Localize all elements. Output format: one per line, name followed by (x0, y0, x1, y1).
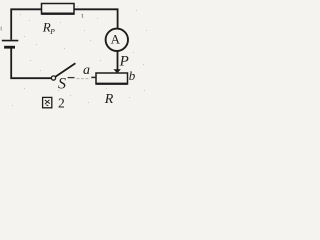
switch S (51, 63, 75, 80)
label P (119, 54, 129, 70)
wire faded under node a (77, 78, 91, 80)
svg-text:P: P (119, 54, 129, 70)
label R (104, 92, 114, 107)
wire battery bottom to switch (11, 48, 51, 78)
wire ammeter to slider arrow (117, 51, 119, 70)
label S (58, 76, 66, 93)
wire switch contact dash (68, 77, 75, 79)
svg-text:P: P (49, 27, 55, 36)
scan speckle t (82, 14, 84, 20)
figure caption glyph tu (43, 97, 52, 107)
svg-text:b: b (129, 68, 136, 83)
scan noise dots (12, 6, 147, 106)
resistor R1 (42, 4, 75, 15)
svg-text:t: t (82, 14, 84, 20)
rheostat R (96, 73, 128, 84)
label b (129, 68, 136, 83)
slider arrow (113, 69, 121, 73)
scan speckle left edge (0, 27, 3, 31)
wire node a to rheostat (91, 76, 96, 78)
node a (83, 63, 90, 78)
svg-text:a: a (83, 63, 90, 78)
wire resistor to ammeter (74, 9, 118, 29)
svg-text:S: S (58, 76, 66, 93)
svg-text:A: A (111, 31, 121, 46)
figure caption number 2 (58, 95, 65, 110)
ammeter U1 (106, 29, 128, 51)
label R1 (42, 20, 56, 37)
svg-text:2: 2 (58, 95, 65, 110)
battery B1 (2, 41, 19, 48)
svg-text:R: R (104, 92, 114, 107)
wire battery top to resistor (11, 9, 41, 40)
